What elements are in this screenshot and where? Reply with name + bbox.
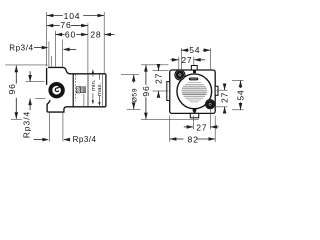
svg-text:82: 82 — [188, 134, 199, 144]
screw boss bottom-right — [206, 100, 215, 109]
extension line square right (82 dim) — [214, 116, 216, 142]
extension line Rp3/4 thread inner — [50, 56, 52, 67]
extension line boss1 (54 dim left) — [180, 48, 182, 69]
svg-text:60: 60 — [65, 29, 76, 39]
extension line min plaster plane — [87, 23, 89, 73]
bottom screw mark — [193, 108, 197, 115]
screw boss top-left — [175, 70, 185, 80]
svg-text:27: 27 — [196, 122, 207, 132]
dimension 27 left inner — [153, 70, 169, 72]
dimension 27 top — [170, 59, 178, 61]
top port mark — [193, 70, 196, 73]
dimension 104 — [47, 15, 63, 17]
port span dimension (unlabeled) — [25, 81, 44, 83]
dimension 54 right — [232, 80, 244, 82]
dimension 54 top — [181, 49, 188, 51]
dimension 76 — [47, 25, 60, 27]
svg-text:96: 96 — [141, 85, 151, 96]
hansgrohe pill — [189, 78, 199, 81]
extension line boss2 (54 dim right) — [209, 48, 211, 70]
extension line port axis (60 dim) — [54, 31, 56, 67]
svg-text:27: 27 — [220, 92, 230, 103]
extension line Rp3/4 thread outer — [48, 42, 50, 67]
extension line boss1 center (27 dim) — [178, 57, 180, 71]
dimension 82 bottom — [170, 138, 184, 140]
svg-text:28: 28 — [90, 29, 101, 39]
arrow at hex edge — [64, 48, 76, 50]
dimension 27 right — [217, 89, 228, 91]
svg-text:min.: min. — [91, 79, 97, 91]
extension line boss2 center (27 dim) — [209, 109, 211, 130]
svg-text:96: 96 — [7, 83, 17, 94]
label fine print — [187, 81, 201, 84]
svg-text:27: 27 — [154, 73, 164, 84]
dimension 60 — [55, 34, 64, 36]
interior lines — [72, 74, 74, 107]
extension line bottom tab (27 dim) — [192, 116, 194, 130]
extension line hex edge — [62, 40, 64, 67]
dimension diameter 59 — [121, 74, 139, 76]
svg-text:Ø59: Ø59 — [131, 88, 138, 102]
svg-text:27: 27 — [181, 55, 192, 65]
front square body — [170, 70, 216, 113]
dimension 96 side — [5, 64, 47, 66]
extension line body centerline (27 dim) — [193, 57, 195, 66]
dimension 27 bottom — [184, 126, 193, 128]
extension line square left (82 dim) — [169, 116, 171, 142]
dimension 96 front — [141, 64, 169, 66]
extension line body right edge — [103, 12, 105, 73]
side port boss — [48, 82, 64, 98]
min wall line inside body — [87, 74, 89, 107]
svg-text:Rp3/4: Rp3/4 — [22, 111, 32, 138]
svg-text:Rp3/4: Rp3/4 — [9, 43, 33, 52]
min. / max. labels — [92, 70, 94, 77]
svg-text:Rp3/4: Rp3/4 — [73, 135, 97, 144]
body outline — [47, 67, 106, 112]
dust cover circle — [177, 74, 212, 109]
set screw — [76, 87, 80, 93]
svg-text:54: 54 — [189, 45, 200, 55]
extension line body left edge — [46, 12, 48, 67]
svg-text:54: 54 — [235, 90, 245, 101]
svg-text:max.: max. — [97, 82, 103, 96]
port tabs — [191, 66, 197, 71]
